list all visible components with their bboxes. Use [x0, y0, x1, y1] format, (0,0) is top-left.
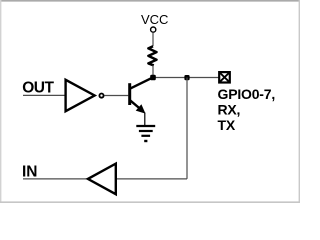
net label VCC	[141, 12, 168, 27]
wire VCC circle to resistor	[152, 32, 154, 46]
inverter	[66, 80, 104, 111]
ground	[136, 126, 155, 141]
port label OUT	[22, 80, 54, 97]
VCC terminal circle	[151, 27, 156, 32]
wire emitter to ground	[144, 113, 146, 127]
svg-text:RX,: RX,	[218, 102, 241, 118]
svg-text:VCC: VCC	[141, 12, 168, 27]
wire OUT to inverter	[23, 94, 65, 96]
wire inverter to transistor base	[104, 95, 128, 97]
pin box GPIO	[219, 72, 230, 82]
wire to IN buffer input	[116, 178, 188, 180]
wire buffer output to IN	[23, 178, 87, 180]
svg-text:GPIO0-7,: GPIO0-7,	[218, 86, 276, 102]
svg-text:IN: IN	[22, 163, 38, 180]
port label IN	[22, 163, 38, 180]
transistor	[128, 78, 152, 114]
resistor	[148, 46, 156, 65]
svg-text:OUT: OUT	[22, 80, 54, 97]
frame border	[0, 0, 300, 203]
wire vertical feedback	[186, 78, 188, 179]
svg-text:TX: TX	[218, 117, 236, 133]
input buffer	[88, 164, 116, 195]
wire resistor to node	[152, 65, 154, 77]
junction node at feedback tap	[184, 75, 189, 80]
junction node at resistor/collector	[150, 75, 156, 81]
pin label GPIO0-7, RX, TX	[218, 86, 276, 133]
wire node to pin box	[153, 77, 219, 79]
